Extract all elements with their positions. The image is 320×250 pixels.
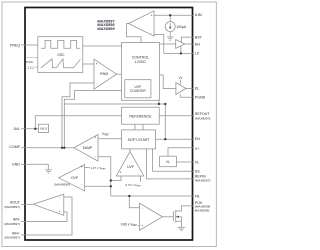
wire SYNC dashed input [27, 57, 38, 59]
svg-text:+: + [59, 210, 61, 214]
wire DL pin [186, 88, 194, 90]
wire FB pin rail [111, 195, 194, 197]
wire POK output to MOSFET gate [162, 216, 173, 218]
IC boundary frame [25, 8, 193, 241]
svg-text:VL: VL [195, 160, 199, 164]
wire current-limit output to control logic [127, 24, 142, 43]
ground below MOSFET [178, 227, 186, 230]
svg-text:(MAX8597): (MAX8597) [4, 205, 20, 209]
driver DH [176, 40, 185, 49]
OSC sawtooth ramp waveform [41, 59, 80, 68]
reference box [122, 107, 160, 124]
transistor POK MOSFET [172, 211, 174, 221]
wire AOUT pin [21, 203, 33, 205]
wire reference to AVL rail [35, 116, 121, 129]
wire LX pin [164, 46, 194, 53]
comparator PWM [94, 59, 117, 89]
svg-text:+: + [96, 62, 98, 66]
comparator OVP [59, 165, 85, 191]
wire VL supply stub to DL driver [179, 80, 181, 85]
wire ILIM pin [154, 14, 194, 16]
comparator current-limit [129, 11, 155, 36]
wire control logic to DH driver [160, 43, 176, 45]
UVLO box at AVL [38, 124, 48, 132]
comparator POK [140, 203, 163, 230]
wire EAMP minus to FB rail [98, 157, 111, 196]
wire REFIN pin [146, 149, 194, 179]
wire control logic to COMP node [64, 91, 121, 148]
svg-text:UVLO: UVLO [40, 127, 47, 131]
svg-text:(MAX8599): (MAX8599) [54, 182, 70, 186]
svg-text:DH: DH [195, 42, 201, 46]
svg-text:-: - [59, 195, 60, 199]
VL regulator box [160, 156, 177, 167]
left pin labels [4, 43, 33, 239]
ground at GND pin [45, 170, 52, 173]
wire VL pin [176, 161, 194, 163]
svg-text:SOFT-START: SOFT-START [128, 138, 151, 142]
current source 100uA [165, 22, 175, 32]
svg-text:-: - [151, 31, 152, 35]
svg-text:OSC: OSC [57, 53, 65, 57]
wire GND pin [21, 164, 48, 170]
oscillator OSC box [38, 37, 83, 73]
svg-text:-: - [81, 182, 82, 186]
wire control logic enable rail [64, 104, 165, 139]
svg-text:PWM: PWM [100, 72, 108, 76]
svg-text:+: + [94, 136, 96, 140]
svg-text:PGND: PGND [195, 96, 206, 100]
wire SS pin [153, 149, 194, 171]
svg-text:CONTROL: CONTROL [132, 56, 150, 60]
wire reference to soft-start stubs [135, 124, 143, 130]
svg-text:UVP: UVP [127, 165, 135, 169]
svg-text:-: - [142, 206, 143, 210]
wire soft-start to EAMP plus [98, 138, 122, 140]
svg-text:COMP: COMP [9, 145, 20, 149]
svg-text:V+: V+ [195, 147, 200, 151]
wire FREQ pin to OSC [21, 44, 38, 46]
right pin labels [195, 13, 211, 212]
svg-text:SS: SS [195, 170, 200, 174]
svg-text:(MAX8597): (MAX8597) [4, 222, 20, 226]
svg-text:(MAX8597): (MAX8597) [195, 179, 211, 183]
UVP counter box [125, 80, 151, 98]
driver DL [176, 83, 186, 95]
svg-text:BST: BST [195, 35, 203, 39]
wire EAMP output to COMP pin [21, 147, 74, 149]
svg-text:-: - [95, 154, 96, 158]
svg-text:REFERENCE: REFERENCE [129, 114, 152, 118]
wire PWM output to control logic [117, 73, 122, 75]
svg-text:DL: DL [195, 87, 200, 91]
svg-text:EN: EN [195, 137, 200, 141]
wire control logic to DL driver [160, 75, 176, 89]
wire OSC ramp to PWM + input [83, 63, 94, 65]
control logic box [122, 43, 160, 101]
wire FB to POK comparator [129, 196, 139, 208]
OSC square-wave clock waveform [41, 40, 80, 48]
svg-text:MAX8599): MAX8599) [195, 209, 210, 213]
op-amp A1 (MAX8597) [33, 194, 64, 215]
svg-text:EAMP: EAMP [83, 146, 93, 150]
svg-text:100µA: 100µA [176, 25, 186, 29]
svg-text:+: + [141, 224, 143, 228]
svg-text:+: + [81, 165, 83, 169]
wire UV input to FB rail [111, 176, 121, 181]
svg-text:-: - [138, 172, 139, 176]
wire REFOUT pin [159, 115, 194, 117]
svg-text:+: + [151, 14, 153, 18]
wire AIN+ pin [21, 197, 72, 235]
svg-text:(MAX8597): (MAX8597) [195, 116, 211, 120]
wire EN pin [156, 138, 194, 140]
wire POK threshold stub [138, 225, 140, 227]
svg-text:SYNC: SYNC [26, 60, 34, 64]
comparator UV [116, 152, 144, 177]
wire BST pin [181, 37, 194, 42]
wire UV output to soft-start [129, 149, 131, 152]
wire PWM - input from COMP node [62, 83, 94, 148]
wire AIN- pin [21, 212, 67, 221]
wire AVL pin [21, 128, 38, 130]
wire OVP plus input to FB rail [85, 185, 111, 187]
MOSFET body arrow [176, 216, 179, 218]
svg-text:+: + [120, 171, 122, 175]
wire V+ pin [168, 148, 194, 156]
svg-text:(MAX8597): (MAX8597) [4, 236, 20, 240]
svg-text:FREQ: FREQ [10, 43, 20, 47]
wire OVP threshold stub [85, 167, 90, 169]
wire current-limit minus to LX [154, 34, 164, 53]
svg-text:LOGIC: LOGIC [135, 60, 147, 64]
svg-text:LX: LX [195, 52, 200, 56]
svg-text:MAX8599: MAX8599 [97, 26, 115, 31]
svg-text:FB: FB [195, 194, 200, 198]
svg-text:VL: VL [179, 76, 183, 80]
input polarity marks [59, 14, 153, 228]
svg-text:AVL: AVL [13, 127, 20, 131]
wire DH pin [185, 43, 194, 45]
part numbers [97, 18, 115, 31]
svg-text:GND: GND [12, 163, 20, 167]
block labels [40, 53, 183, 187]
soft-start box [122, 130, 156, 149]
svg-text:ILIM: ILIM [195, 13, 202, 17]
svg-text:VL: VL [166, 160, 170, 164]
ground below current source [167, 37, 173, 40]
svg-text:COUNTER: COUNTER [130, 89, 146, 93]
page background [0, 0, 219, 250]
wire UV threshold stub [140, 176, 142, 182]
svg-text:-: - [96, 81, 97, 85]
error amplifier EAMP [74, 135, 98, 162]
page border frame [2, 2, 216, 247]
wire PGND pin [180, 94, 194, 97]
svg-text:OVP: OVP [71, 176, 79, 180]
wire OSC clock to control logic [83, 45, 122, 47]
